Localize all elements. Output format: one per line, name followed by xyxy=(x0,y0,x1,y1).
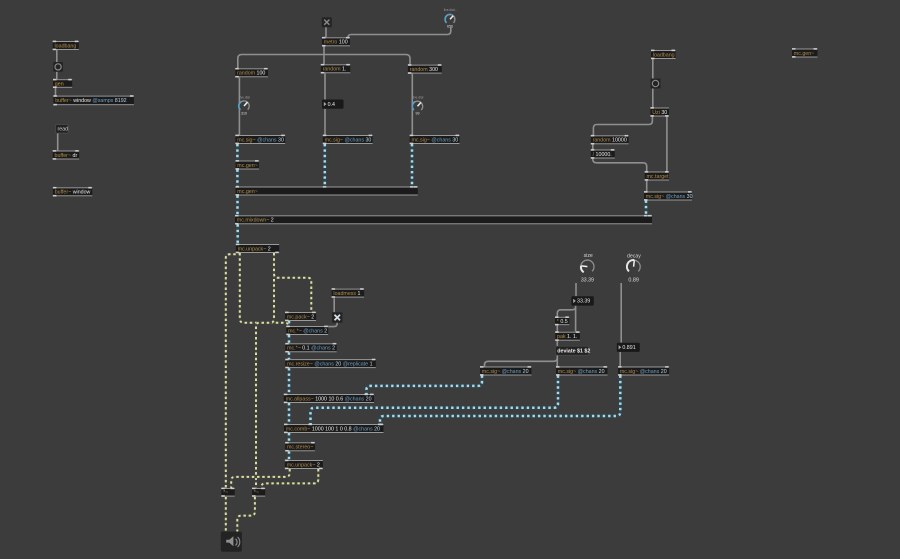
signal cord unpack right outlet to mc.pack~ right inlet xyxy=(274,253,311,312)
object mc.gen~ (wide) xyxy=(236,186,418,196)
wire metro to random objects (tee) xyxy=(238,46,410,68)
wire Uzi left outlet to random 10000 xyxy=(593,117,652,136)
wire live.dial-top to metro right inlet xyxy=(348,28,451,39)
svg-text:310: 310 xyxy=(241,111,247,115)
signal cord lower unpack right to right *~ right inlet xyxy=(262,469,319,488)
svg-text:buffer~ dr: buffer~ dr xyxy=(55,153,78,159)
signal cord unpack left outlet to mc.*~ left inlet xyxy=(240,253,289,326)
button (bang) right xyxy=(651,79,661,89)
mc cord mc.mixdown~ to mc.unpack~ xyxy=(236,224,239,244)
object gen xyxy=(53,79,72,88)
svg-text:decay: decay xyxy=(627,253,641,259)
svg-text:read: read xyxy=(58,127,69,133)
svg-text:deviate $1 $2: deviate $1 $2 xyxy=(557,349,590,355)
svg-text:mc.*~ 0.1 @chans 2: mc.*~ 0.1 @chans 2 xyxy=(287,346,335,352)
object mc.sig~ @chans 30 (far right) xyxy=(644,191,693,201)
svg-text:live.dial: live.dial xyxy=(239,95,250,99)
svg-text:99: 99 xyxy=(416,112,420,116)
svg-text:mc.unpack~ 2: mc.unpack~ 2 xyxy=(287,462,320,468)
object mc.sig~ @chans 30 (left) xyxy=(235,135,285,145)
object random 1. xyxy=(321,64,351,74)
wire toggle to metro xyxy=(325,27,327,37)
wire Uzi right outlet to mc.target right inlet xyxy=(666,117,668,172)
wire loadbang-right to button xyxy=(652,59,654,79)
toggle (metro on/off) xyxy=(322,17,332,27)
svg-text:metro 100: metro 100 xyxy=(324,40,348,46)
mc cord mc.allpass~ to mc.comb~ xyxy=(287,403,290,424)
number box 0.4 xyxy=(322,100,344,109)
object mc.sig~ @chans 30 (mid) xyxy=(323,135,373,145)
object *~ (right) xyxy=(252,488,265,497)
mc cord mc.sig~ 20-right to mc.comb~ right inlet xyxy=(380,376,620,425)
mc cord mc.*~ to mc.*~ 0.1 xyxy=(287,335,290,343)
svg-text:0.4: 0.4 xyxy=(328,102,335,108)
wire loadbang-left to button xyxy=(56,50,58,62)
number box 0.891 xyxy=(617,343,640,352)
object loadbang (right) xyxy=(651,50,676,60)
object pak 1. 1. xyxy=(555,331,580,341)
toggle (feedback on/off) xyxy=(332,312,343,323)
object *~ (left) xyxy=(221,488,234,497)
message deviate $1 $2 xyxy=(555,346,590,355)
object mc.sig~ @chans 30 (right) xyxy=(410,135,460,145)
svg-text:size: size xyxy=(584,253,593,259)
mc cord mc.resize~ to mc.allpass~ xyxy=(287,368,290,394)
svg-text:mc.sig~ @chans 30: mc.sig~ @chans 30 xyxy=(325,137,372,143)
wire loadmess to toggle xyxy=(333,298,335,312)
wire size dial to number 33.39 xyxy=(575,283,577,296)
svg-text:33.39: 33.39 xyxy=(577,299,590,305)
object random 100 xyxy=(235,68,268,78)
wire decay dial to number 0.891 xyxy=(620,283,622,343)
object random 300 xyxy=(408,64,442,74)
svg-text:0.89: 0.89 xyxy=(628,278,639,284)
mc cord mc.*~ 0.1 to mc.resize~ xyxy=(287,352,290,359)
object / 10000. xyxy=(591,149,615,159)
object mc.unpack~ 2 (lower) xyxy=(285,460,323,470)
svg-text:mc.unpack~ 2: mc.unpack~ 2 xyxy=(238,246,271,252)
svg-text:mc.comb~ 1000 100 1 0 0.8 @cha: mc.comb~ 1000 100 1 0 0.8 @chans 20 xyxy=(286,426,380,432)
wire random 1. to number 0.4 xyxy=(324,73,326,99)
svg-text:buffer~ window @samps 8192: buffer~ window @samps 8192 xyxy=(55,98,126,104)
object mc.gen~ (top right) xyxy=(792,48,818,58)
wire random 300 to live.dial-B to mc.sig~ xyxy=(411,74,413,135)
wire number 33.39 to * 0.5 and pak xyxy=(557,306,575,332)
live.dial decay xyxy=(627,253,641,283)
object mc.mixdown~ 2 xyxy=(235,215,652,225)
signal cord right *~ to ezdac right inlet xyxy=(237,497,255,532)
signal cord left *~ to ezdac xyxy=(225,497,227,532)
svg-text:loadbang: loadbang xyxy=(653,52,675,58)
wire deviate to mc.sig~ @chans 20 boxes xyxy=(485,355,558,366)
wire random 10000 to / 10000. xyxy=(592,144,594,149)
mc cord mc.sig~ 20-left to mc.allpass~ right inlet xyxy=(366,376,482,395)
object mc.stereo~ xyxy=(285,442,315,452)
object Uzi 30 xyxy=(650,107,669,117)
wire mc.target to mc.sig~ right xyxy=(646,181,648,192)
object * 0.5 xyxy=(555,316,569,325)
button (bang) left xyxy=(53,62,63,72)
mc cord mc.stereo~ to mc.unpack~ 2 xyxy=(287,451,290,460)
svg-text:Uzi 30: Uzi 30 xyxy=(652,110,667,116)
svg-text:live.dial...: live.dial... xyxy=(444,8,457,12)
object random 10000 xyxy=(591,135,629,145)
svg-text:mc.gen~: mc.gen~ xyxy=(237,189,257,195)
svg-text:gen: gen xyxy=(55,81,64,87)
svg-text:loadbang: loadbang xyxy=(55,43,77,49)
wire random 100 to live.dial-A to mc.sig~ xyxy=(238,77,240,135)
svg-text:random 300: random 300 xyxy=(410,67,438,73)
object buffer~ dr xyxy=(53,150,79,160)
wire / 10000. to mc.target xyxy=(593,159,647,172)
signal cord unpack right outlet to right *~ xyxy=(256,253,274,488)
wire button to Uzi 30 xyxy=(652,89,654,108)
ezdac~ speaker output xyxy=(221,532,242,552)
signal cord lower unpack left to left *~ right inlet xyxy=(231,469,290,488)
object mc.*~ 0.1 @chans 2 xyxy=(285,343,336,353)
svg-text:pak 1. 1.: pak 1. 1. xyxy=(557,334,577,340)
mc cord mc.sig~ left to mc.gen~ small xyxy=(236,144,239,161)
mc cord mc.pack~ to mc.*~ xyxy=(287,321,290,326)
svg-text:33.39: 33.39 xyxy=(581,278,594,284)
svg-text:* 0.5: * 0.5 xyxy=(557,319,568,325)
svg-text:mc.resize~ @chans 20 @replicat: mc.resize~ @chans 20 @replicate 1 xyxy=(287,361,372,367)
svg-text:mc.sig~ @chans 20: mc.sig~ @chans 20 xyxy=(620,369,667,375)
object mc.sig~ @chans 20 (left) xyxy=(480,366,532,376)
object mc.resize~ @chans 20 @replicate 1 xyxy=(285,359,376,369)
live.dial size xyxy=(581,253,594,284)
wire button to gen xyxy=(56,72,58,79)
object mc.gen~ (small) xyxy=(236,160,260,170)
wire pak to deviate message xyxy=(556,341,558,347)
live.dial A (left) xyxy=(239,95,250,115)
mc cord mc.sig~ far-right to mc.mixdown~ xyxy=(644,201,647,216)
svg-text:random 1.: random 1. xyxy=(323,67,347,73)
object buffer~ window xyxy=(53,187,92,197)
object mc.*~ @chans 2 xyxy=(286,326,328,336)
svg-text:random 10000: random 10000 xyxy=(593,138,627,144)
svg-text:live.dial: live.dial xyxy=(413,96,424,100)
svg-text:mc.pack~ 2: mc.pack~ 2 xyxy=(287,314,314,320)
object mc.allpass~ 1000 10 0.6 @chans 20 xyxy=(284,394,374,404)
object mc.sig~ @chans 20 (right) xyxy=(618,366,669,376)
message read xyxy=(56,125,69,134)
svg-text:mc.*~ @chans 2: mc.*~ @chans 2 xyxy=(288,328,327,334)
signal cord unpack left outlet long left drop xyxy=(226,251,240,488)
svg-text:mc.sig~ @chans 30: mc.sig~ @chans 30 xyxy=(646,194,693,200)
svg-text:656: 656 xyxy=(447,25,453,29)
svg-text:0.891: 0.891 xyxy=(622,345,635,351)
svg-text:mc.sig~ @chans 30: mc.sig~ @chans 30 xyxy=(412,137,459,143)
object loadmess 1 xyxy=(332,288,365,298)
svg-text:*~: *~ xyxy=(254,490,259,496)
number box 33.39 xyxy=(571,296,593,305)
svg-text:/ 10000.: / 10000. xyxy=(593,152,612,158)
svg-text:mc.sig~ @chans 30: mc.sig~ @chans 30 xyxy=(237,137,284,143)
mc cord mc.sig~ right to mc.gen~ wide xyxy=(410,144,413,187)
mc cord mc.sig~ 20-mid to mc.comb~ inlet xyxy=(311,376,559,425)
svg-text:mc.sig~ @chans 20: mc.sig~ @chans 20 xyxy=(558,369,605,375)
mc cord mc.gen~ wide to mc.mixdown~ xyxy=(236,196,239,216)
wire * 0.5 to pak xyxy=(556,325,558,332)
svg-text:mc.stereo~: mc.stereo~ xyxy=(287,445,313,451)
wire number 0.4 to mc.sig~ mid xyxy=(324,109,326,135)
object mc.comb~ 1000 100 1 0 0.8 @chans 20 xyxy=(284,424,384,434)
svg-text:mc.allpass~ 1000 10 0.6 @chans: mc.allpass~ 1000 10 0.6 @chans 20 xyxy=(286,396,372,402)
object mc.unpack~ 2 (upper) xyxy=(236,244,279,254)
svg-text:buffer~ window: buffer~ window xyxy=(55,190,91,196)
svg-text:mc.sig~ @chans 20: mc.sig~ @chans 20 xyxy=(482,369,529,375)
object mc.sig~ @chans 20 (mid) xyxy=(556,366,608,376)
live.dial B (right) xyxy=(412,96,423,116)
svg-text:random 100: random 100 xyxy=(237,71,265,77)
object metro 100 xyxy=(322,37,350,47)
wire gen to buffer~ window @samps xyxy=(55,88,57,96)
live.dial top-right xyxy=(444,8,457,29)
wire number 0.891 to mc.sig~ @chans 20 right xyxy=(619,352,621,367)
svg-text:mc.gen~: mc.gen~ xyxy=(794,51,814,57)
object mc.target xyxy=(645,171,669,181)
mc cord mc.comb~ to mc.stereo~ xyxy=(287,433,290,442)
mc cord mc.sig~ mid to mc.gen~ wide xyxy=(323,144,326,187)
object loadbang (left) xyxy=(53,41,79,51)
wire toggle to mc.*~ right inlet xyxy=(327,322,337,327)
svg-text:mc.mixdown~ 2: mc.mixdown~ 2 xyxy=(237,218,274,224)
svg-text:loadmess 1: loadmess 1 xyxy=(333,291,360,297)
svg-text:mc.gen~: mc.gen~ xyxy=(237,163,257,169)
object mc.pack~ 2 xyxy=(285,312,316,322)
mc cord mc.gen~ small to mc.gen~ wide xyxy=(236,170,239,187)
object buffer~ window @samps 8192 xyxy=(53,95,133,105)
svg-text:*~: *~ xyxy=(223,490,228,496)
wire read to buffer~ dr xyxy=(57,133,59,151)
svg-text:mc.target: mc.target xyxy=(647,174,670,180)
